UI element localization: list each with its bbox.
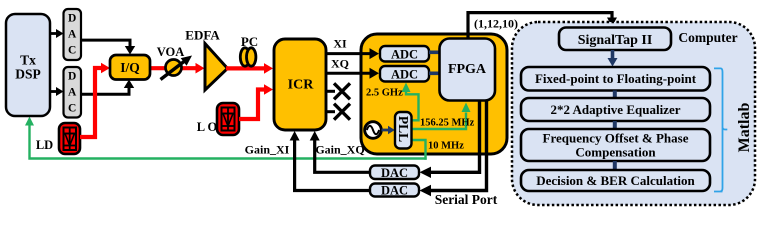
- wire Tx DSP to DAC1: [50, 29, 64, 38]
- svg-text:A: A: [68, 87, 77, 99]
- wire red I/Q to EDFA: [150, 63, 205, 74]
- wire Tx DSP to DAC2: [50, 87, 64, 96]
- svg-text:VOA: VOA: [157, 45, 185, 59]
- svg-text:2*2 Adaptive Equalizer: 2*2 Adaptive Equalizer: [550, 102, 680, 117]
- svg-text:I/Q: I/Q: [120, 60, 140, 75]
- wire red LD to I/Q: [80, 63, 110, 137]
- svg-text:10 MHz: 10 MHz: [428, 141, 464, 152]
- wire green 2.5GHz PLL to ADC: [402, 83, 419, 121]
- svg-text:Compensation: Compensation: [575, 145, 656, 160]
- svg-text:2.5 GHz: 2.5 GHz: [366, 88, 403, 99]
- svg-text:LD: LD: [36, 138, 53, 152]
- laser diode LO: [217, 103, 239, 135]
- svg-text:(1,12,10): (1,12,10): [474, 17, 518, 31]
- unused ICR port X1: [326, 83, 350, 99]
- svg-text:PLL: PLL: [396, 116, 411, 142]
- amplifier EDFA: [205, 44, 228, 91]
- wire green 156.25MHz PLL to FPGA: [412, 103, 471, 130]
- svg-text:XQ: XQ: [331, 57, 349, 71]
- laser diode LD: [59, 123, 80, 154]
- svg-text:PC: PC: [241, 34, 258, 49]
- wire ICR XI to ADC: [326, 48, 379, 59]
- svg-text:L O: L O: [197, 120, 218, 134]
- svg-text:ICR: ICR: [288, 78, 315, 93]
- polarization controller PC: [240, 48, 256, 66]
- unused ICR port X2: [326, 104, 350, 120]
- svg-text:Gain_XI: Gain_XI: [245, 143, 290, 157]
- computer box: [512, 22, 755, 205]
- wire DAC2 to I/Q bottom: [81, 80, 134, 95]
- block FPGA: [440, 39, 496, 101]
- svg-text:Fixed-point to Floating-point: Fixed-point to Floating-point: [535, 71, 697, 86]
- bus ADC1 to FPGA: [429, 50, 440, 54]
- modulator I/Q: [110, 55, 150, 80]
- svg-text:EDFA: EDFA: [185, 28, 220, 43]
- connector 2-3: [613, 121, 617, 130]
- block 2*2 Adaptive Equalizer: [521, 98, 710, 121]
- svg-text:DAC: DAC: [381, 184, 408, 198]
- svg-text:Gain_XQ: Gain_XQ: [315, 143, 364, 157]
- svg-text:D: D: [68, 13, 76, 25]
- svg-text:DSP: DSP: [15, 67, 41, 82]
- board block (orange digitizer): [361, 34, 507, 154]
- svg-text:C: C: [68, 103, 76, 115]
- svg-text:XI: XI: [333, 37, 347, 51]
- block Decision and BER Calculation: [521, 170, 710, 191]
- svg-text:C: C: [68, 45, 76, 57]
- wire FPGA to SignalTap: [468, 13, 617, 39]
- wire red LO to ICR: [239, 84, 273, 119]
- svg-text:ADC: ADC: [391, 67, 418, 81]
- wire green 10MHz PLL outlet: [412, 140, 426, 160]
- block Frequency Offset and Phase Compensation: [521, 129, 710, 161]
- arrow clock to PLL: [382, 126, 395, 134]
- bracket Matlab: [714, 68, 727, 191]
- DAC D1 (vertical): [64, 9, 82, 60]
- connector 3-4: [613, 161, 617, 170]
- block PLL: [395, 112, 412, 149]
- attenuator VOA: [161, 56, 193, 80]
- wire FPGA to DAC serial 1: [420, 101, 480, 179]
- DAC gain 1: [370, 166, 419, 180]
- svg-text:Matlab: Matlab: [736, 103, 753, 153]
- block SignalTap II: [559, 28, 671, 51]
- block Fixed-point to Floating-point: [521, 67, 710, 91]
- receiver ICR: [274, 39, 326, 130]
- svg-text:DAC: DAC: [381, 166, 408, 180]
- DAC gain 2: [370, 184, 419, 198]
- wire DAC to ICR gain XQ: [290, 131, 370, 191]
- wire DAC1 to I/Q top: [81, 40, 135, 54]
- svg-text:D: D: [68, 71, 76, 83]
- clock oscillator: [365, 122, 382, 139]
- svg-text:156.25 MHz: 156.25 MHz: [420, 118, 475, 129]
- svg-text:FPGA: FPGA: [448, 62, 487, 77]
- svg-text:SignalTap II: SignalTap II: [578, 33, 653, 48]
- wire DAC to ICR gain XI: [310, 131, 370, 172]
- connector 1-2: [613, 91, 617, 99]
- wire green 10MHz feedback to Tx DSP: [25, 117, 427, 159]
- block Tx DSP: [6, 14, 50, 116]
- svg-text:Computer: Computer: [678, 30, 737, 45]
- svg-text:Frequency Offset & Phase: Frequency Offset & Phase: [543, 131, 689, 146]
- ADC A2: [380, 66, 429, 82]
- wire red EDFA to ICR: [226, 63, 273, 74]
- svg-text:Decision & BER Calculation: Decision & BER Calculation: [536, 173, 695, 188]
- svg-text:A: A: [68, 29, 77, 41]
- svg-text:Serial Port: Serial Port: [435, 192, 498, 207]
- wire ICR XQ to ADC: [326, 68, 379, 79]
- wire FPGA to DAC serial 2: [420, 101, 487, 197]
- ADC A1: [380, 46, 429, 62]
- bus ADC2 to FPGA: [429, 72, 440, 76]
- arrow SignalTap to block1: [608, 50, 618, 67]
- svg-text:Tx: Tx: [20, 53, 36, 68]
- svg-text:ADC: ADC: [391, 47, 418, 61]
- DAC D2 (vertical): [64, 67, 82, 118]
